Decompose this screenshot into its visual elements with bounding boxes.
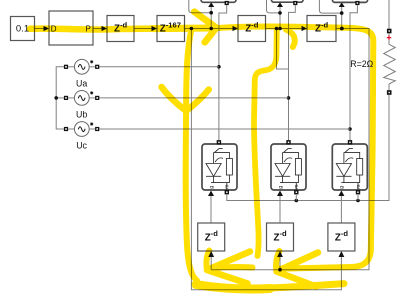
junction TB3 wire on main line	[340, 27, 344, 31]
junction m2 on bus	[295, 199, 299, 203]
junction on Ua wire	[217, 65, 221, 69]
arrowhead into Zd3 bottom	[339, 251, 345, 257]
svg-text:Ub: Ub	[76, 110, 87, 120]
delay block Zd2 (bottom)	[267, 223, 294, 251]
wire: Z-d to Z-167	[134, 28, 152, 30]
delay block Z-d (4th)	[238, 16, 266, 42]
top cut-off block TB3	[332, 0, 367, 2]
wire: vertical into top block TB3	[341, 7, 343, 29]
wire: riser into delay Zd1 input	[210, 257, 212, 270]
wire: gate wire Zd2 to thyristor2	[279, 196, 281, 223]
svg-text:g: g	[209, 186, 215, 189]
junction feed1	[209, 11, 213, 15]
wire: 5th Z-d output going right then down right side	[211, 29, 369, 270]
wire: constant to D/P block	[35, 28, 45, 30]
wire: gate wire Zd1 to thyristor1	[210, 196, 212, 223]
delay block Z-d (5th)	[307, 16, 336, 42]
highlight arrowhead right on main path	[194, 12, 216, 42]
thyristor subsystem 2	[271, 140, 306, 196]
highlight arrow 2 barbs	[277, 253, 319, 287]
wire: Ub phase wire	[99, 97, 288, 99]
arrowhead into TB1 bottom	[208, 2, 214, 7]
junction feed3	[340, 11, 344, 15]
highlight bottom swash	[196, 285, 270, 290]
delay block Z-d (first)	[107, 16, 134, 42]
wire: feed from top edge to TB3 input	[319, 0, 341, 13]
constant block 0.1	[11, 17, 35, 41]
delay block Z-167	[157, 16, 185, 42]
junction neutral at Ub	[54, 96, 58, 100]
arrowhead into 4th Z-d	[233, 26, 239, 31]
wire: source neutral bus	[56, 67, 64, 129]
AC source Uc	[64, 122, 99, 151]
highlight arrow 1 shaft	[211, 267, 253, 268]
svg-text:g: g	[339, 186, 345, 189]
highlight left vertical with wiggle down to bottom swash	[186, 29, 197, 281]
AC source Ub	[64, 91, 99, 120]
junction m3 on bus	[356, 199, 360, 203]
thyristor subsystem 1	[202, 140, 237, 196]
wire: TB2 port down-left-down to phase B / thyristor2 anode	[289, 5, 296, 140]
arrowhead into Z-d	[102, 26, 108, 31]
wire: Uc phase wire	[99, 128, 350, 130]
junction on Ub wire	[287, 96, 291, 100]
arrowhead into Z-167	[152, 26, 158, 31]
wire: TB1 port down-left-down to phase A / thyristor1 anode	[219, 5, 227, 140]
highlight arrow 1 barbs	[207, 252, 250, 284]
wire m2 stub	[295, 195, 297, 201]
top cut-off block TB1	[201, 0, 236, 2]
arrowhead into D input	[44, 26, 50, 31]
junction TB3 main line tap	[340, 27, 344, 31]
wire: Ua phase wire	[99, 66, 219, 68]
TB1 output port	[225, 1, 229, 5]
highlighter layer	[30, 12, 373, 289]
arrowhead into TB2 bottom	[277, 2, 283, 7]
highlight main path right and down right side	[219, 26, 373, 268]
svg-text:Ua: Ua	[76, 78, 87, 88]
highlight arrow 1 tail	[206, 251, 209, 271]
delay block Zd1 (bottom)	[198, 223, 225, 251]
highlight small hook after junction	[286, 30, 295, 48]
arrowhead into 5th Z-d	[302, 26, 308, 31]
wire: jog from 5th Z-d output area down to TB2 port wire	[277, 29, 289, 70]
arrowhead into Zd1 bottom	[208, 251, 214, 257]
highlight main path left	[30, 28, 193, 29]
svg-text:m: m	[294, 185, 300, 189]
TB2 output port	[293, 1, 297, 5]
junction TB2 wire on main line	[278, 27, 282, 31]
wire: riser into delay Zd2 input	[279, 257, 281, 270]
wire: feed from top edge to TB2 input	[267, 0, 281, 13]
thyristor subsystem 3	[332, 140, 367, 196]
svg-text:Uc: Uc	[76, 141, 87, 151]
highlight S-stroke down from main line	[254, 29, 277, 256]
controller block D/P	[49, 11, 93, 45]
delay block Zd3 (bottom)	[328, 223, 355, 251]
junction Zd2 riser on bus	[278, 268, 282, 272]
highlight down arrowhead barbs	[162, 87, 209, 111]
wire: neutral stub to Ub	[56, 97, 64, 99]
wire: Z-167 to Z-d (4th)	[185, 28, 234, 30]
wire: vertical into top block TB1	[210, 7, 212, 29]
junction on Uc wire	[348, 127, 352, 131]
junction feed2	[278, 11, 282, 15]
wire: P output to Z-d	[93, 28, 102, 30]
highlight thick shaft before arrow	[152, 25, 210, 33]
svg-text:m: m	[225, 185, 231, 189]
wire m3 stub	[357, 195, 359, 201]
arrowhead into Zd2 bottom	[277, 251, 283, 257]
svg-text:m: m	[356, 185, 362, 189]
wire: feed from top edge to TB1 input	[189, 0, 211, 13]
top cut-off block TB2	[271, 0, 303, 2]
junction on main line at x=191	[190, 27, 194, 31]
arrowhead into TB3 bottom	[339, 2, 345, 7]
TB3 output port	[355, 1, 359, 5]
wire: TB3 port down-left-down to phase C / thyristor3 anode	[350, 5, 357, 140]
svg-text:g: g	[278, 186, 284, 189]
wire: gate wire Zd3 to thyristor3	[340, 196, 342, 223]
junction TB1 wire on main line	[209, 27, 213, 31]
wire: m measurement bus to load	[227, 95, 389, 201]
load resistor R	[350, 0, 395, 95]
wire: vertical into top block TB2	[279, 7, 281, 29]
AC source Ua	[64, 59, 99, 88]
wire: 4th Z-d to 5th Z-d	[266, 28, 303, 30]
junction jog on main line	[275, 27, 279, 31]
highlight bottom swash right part	[268, 284, 344, 288]
highlight arrow 2 tail	[276, 251, 279, 272]
wire: long feed from Z-167 junction down and along bottom to Zd3	[191, 29, 341, 290]
